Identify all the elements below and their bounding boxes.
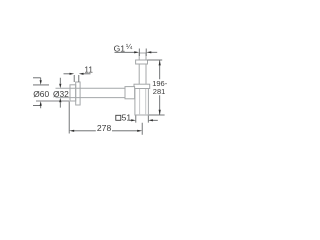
dim D32 up-pointing arrow (below pipe) [59, 98, 61, 103]
vertical inlet tube [139, 53, 146, 89]
union nut N1 (upper) [136, 60, 148, 64]
dim 278 left arrow [69, 130, 74, 132]
svg-text:51: 51 [122, 112, 132, 122]
tube top right arrow tail [151, 51, 158, 53]
union nut N2 (at body top) [134, 84, 150, 88]
dim D60 arrow tails [40, 78, 42, 108]
dim D32 arrow tails [59, 78, 61, 108]
dim D60 down arrow [40, 101, 42, 106]
arrowheads [40, 51, 161, 132]
dim 278 right arrow [137, 130, 142, 132]
svg-text:11: 11 [84, 66, 93, 75]
dim sq51 right arrow [148, 119, 153, 121]
dim D32 down-pointing arrow (above pipe) [59, 84, 61, 89]
horizontal outlet pipe [56, 88, 135, 97]
compression sleeve [125, 87, 135, 99]
dim D60 extension lines [33, 85, 69, 101]
svg-text:Ø32: Ø32 [53, 89, 69, 99]
svg-text:Ø60: Ø60 [33, 89, 49, 99]
dim D60 outer bars [33, 78, 41, 106]
tube top extension ticks [139, 49, 146, 57]
dim 196-281 up arrow [159, 60, 161, 65]
dim 196-281 down arrow [159, 110, 161, 115]
trap body [135, 89, 149, 116]
G1 1/4 leader line [115, 51, 136, 53]
label sq51 square symbol [116, 115, 121, 120]
bottom extension line at body bottom [149, 114, 165, 116]
dim 11 left arrow [70, 73, 75, 75]
svg-text:281: 281 [153, 87, 166, 96]
dim sq51 arrow tails [129, 119, 157, 121]
vertical dimension line 196-281 [159, 60, 161, 115]
wall flange front cover [76, 82, 80, 105]
nut top edge extension line (196-281 top reference) [148, 59, 163, 61]
dim 278 line [74, 130, 138, 132]
dim 11 right arrow [79, 73, 84, 75]
svg-text:278: 278 [97, 123, 112, 133]
dimension linework [33, 49, 165, 135]
dim D60 up arrow [40, 80, 42, 85]
dim sq51 left arrow [131, 119, 136, 121]
wall flange back plate [70, 85, 76, 101]
tube top right arrow [146, 51, 151, 53]
text labels [33, 42, 167, 133]
internal tube in body [140, 89, 146, 115]
dim 278 extension lines [69, 102, 142, 135]
dim 11 lines [64, 74, 91, 82]
dim sq51 extension lines [136, 116, 149, 123]
G1 1/4 arrow [134, 51, 139, 53]
